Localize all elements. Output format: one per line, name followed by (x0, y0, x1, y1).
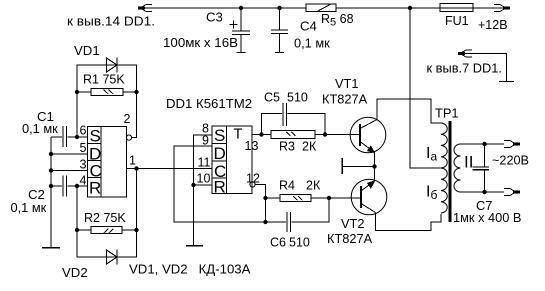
diode VD2 (107, 250, 118, 265)
svg-text:+12В: +12В (478, 18, 508, 32)
svg-text:VD2: VD2 (62, 265, 88, 280)
svg-text:10: 10 (197, 172, 211, 186)
svg-text:12: 12 (246, 172, 260, 186)
svg-text:к выв.14 DD1.: к выв.14 DD1. (67, 14, 155, 29)
svg-text:FU1: FU1 (445, 14, 469, 28)
svg-text:Iа: Iа (426, 145, 437, 164)
svg-text:2К: 2К (302, 140, 317, 154)
wire pin 8 to ground bus (194, 135, 213, 246)
svg-text:1: 1 (129, 154, 136, 168)
svg-text:13: 13 (245, 139, 259, 153)
wire pin 10 to ground bus (194, 184, 213, 186)
capacitor C4 (271, 8, 288, 53)
svg-text:T: T (234, 127, 243, 143)
svg-text:S: S (214, 126, 225, 145)
svg-text:0,1 мк: 0,1 мк (22, 121, 58, 136)
svg-text:КТ827А: КТ827А (322, 92, 368, 107)
resistor R5 (306, 4, 336, 12)
capacitor C6 (266, 198, 330, 232)
ground at pin7 wire (499, 81, 514, 83)
svg-text:VT1: VT1 (335, 76, 358, 91)
wire FU1 to arrow (473, 7, 504, 9)
node +12V arrow (494, 5, 510, 12)
flip-flop DD1.1 box (88, 127, 127, 197)
svg-text:100мк x 16В: 100мк x 16В (163, 35, 238, 50)
resistor R2 (77, 227, 137, 234)
wire secondary bottom lead (461, 191, 505, 193)
capacitor C3 (230, 8, 251, 53)
wire pin4 down to R2 (76, 186, 78, 230)
svg-text:II: II (464, 153, 473, 172)
wire pin 13 (252, 134, 271, 136)
node ~220V top arrow (504, 141, 520, 148)
svg-text:C5: C5 (264, 91, 280, 105)
wire VD1 R1 loop (77, 65, 137, 137)
transformer TP1 primary winding (441, 123, 447, 213)
ground FF2 bus (186, 245, 203, 247)
wire pin1 down to R2 VD2 (136, 169, 138, 231)
svg-text:R: R (89, 179, 101, 198)
svg-text:R5 68: R5 68 (321, 12, 354, 29)
svg-text:C4: C4 (300, 19, 317, 34)
svg-text:Iб: Iб (426, 184, 437, 203)
svg-text:VD1: VD1 (74, 43, 100, 58)
wire VD2 loop (77, 230, 137, 257)
capacitor C2 (51, 176, 88, 197)
svg-text:D: D (214, 144, 226, 163)
svg-text:9: 9 (202, 134, 209, 148)
wire pin 9 feedback from pin 12 (174, 146, 266, 222)
transformer TP1 secondary winding (454, 144, 461, 192)
svg-text:КТ827А: КТ827А (327, 231, 373, 246)
transistor VT1 (350, 117, 386, 153)
wire R5 to FU1 (336, 7, 440, 9)
wire pin 1 to pin 11 (126, 168, 212, 170)
wire pin3 C input (51, 170, 88, 172)
wire +12V down to center tap (410, 8, 441, 168)
capacitor C7 (473, 144, 490, 192)
svg-text:0,1 мк: 0,1 мк (11, 200, 47, 215)
svg-text:R3: R3 (279, 140, 295, 154)
svg-text:2К: 2К (306, 179, 321, 193)
svg-text:DD1 К561ТМ2: DD1 К561ТМ2 (166, 96, 252, 111)
svg-text:11: 11 (198, 156, 211, 170)
svg-text:R2 75K: R2 75K (84, 211, 126, 225)
svg-text:C3: C3 (206, 10, 223, 25)
resistor R4 (266, 195, 330, 202)
diode VD1 (107, 58, 118, 73)
resistor R3 (271, 131, 325, 139)
capacitor C1 (51, 126, 88, 147)
svg-text:R: R (214, 178, 226, 197)
wire secondary top lead (461, 143, 505, 145)
wire VT1 emitter to common (374, 153, 376, 180)
chassis ground emitters (342, 158, 374, 174)
pin 12 inverted output circle (250, 182, 266, 222)
svg-text:2: 2 (124, 112, 131, 126)
svg-text:6: 6 (80, 124, 87, 138)
svg-text:1мк x 400 В: 1мк x 400 В (453, 210, 521, 225)
pin 2 inverted output circle (126, 133, 136, 140)
flip-flop DD1.2 box (212, 126, 252, 194)
svg-text:R4: R4 (279, 179, 295, 193)
svg-text:5: 5 (80, 141, 87, 155)
label S D C R FF2 (214, 126, 227, 197)
svg-text:0,1 мк: 0,1 мк (294, 36, 330, 51)
wire VT1 collector to TP1 (377, 99, 441, 123)
svg-text:ТР1: ТР1 (435, 106, 458, 121)
svg-text:S: S (90, 127, 101, 146)
capacitor C5 (262, 103, 326, 135)
wire VT1 base (325, 134, 360, 136)
label S D C R FF1 (89, 127, 102, 198)
node ~220V bottom arrow (504, 189, 520, 196)
wire left ground bus (50, 137, 52, 248)
svg-text:510: 510 (289, 236, 310, 250)
svg-text:VD1, VD2 КД-103А: VD1, VD2 КД-103А (129, 262, 251, 277)
svg-text:4: 4 (80, 174, 87, 188)
svg-text:R1 75K: R1 75K (83, 73, 125, 87)
node top-left arrow to pin14 (138, 5, 152, 12)
wire VT2 base (329, 197, 361, 199)
node arrow to pin7 DD1 (458, 50, 507, 82)
svg-text:к выв.7 DD1.: к выв.7 DD1. (427, 61, 503, 76)
transformer TP1 core (449, 121, 452, 222)
ground left bus (42, 247, 60, 249)
wire VT2 collector to TP1 bottom (376, 213, 442, 231)
wire top +12V bus (143, 7, 306, 9)
resistor R1 (91, 89, 123, 96)
transistor VT2 (351, 179, 387, 215)
svg-text:C6: C6 (270, 236, 286, 250)
svg-text:VT2: VT2 (341, 216, 364, 231)
svg-text:3: 3 (80, 158, 87, 172)
fuse FU1 (440, 4, 473, 12)
svg-text:510: 510 (287, 91, 308, 105)
wire pin5 D input (51, 153, 88, 155)
svg-text:~220В: ~220В (492, 153, 529, 168)
